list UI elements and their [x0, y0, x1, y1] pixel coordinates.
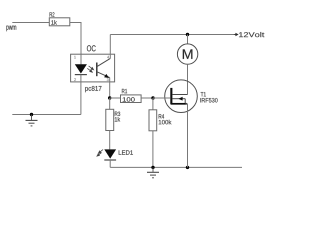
wire gate — [153, 97, 170, 99]
junction dot emitter R1 R3 — [108, 96, 111, 99]
junction dot R4 ground — [151, 166, 154, 169]
resistor R3 — [106, 98, 120, 131]
wire emitter junction to R1 — [110, 97, 121, 99]
wire 12V rail — [110, 34, 233, 36]
ground left — [26, 115, 38, 126]
junction dot gate R4 — [151, 96, 154, 99]
wire LED1 to ground rail — [109, 160, 111, 167]
wire anode inside OC — [80, 54, 82, 64]
wire motor to drain — [187, 64, 189, 94]
light arrows — [87, 66, 93, 72]
LED1 light arrows — [97, 150, 103, 157]
wire R1 to gate junction — [141, 97, 153, 99]
pin 2 — [74, 78, 76, 81]
wire R4 to ground rail — [152, 131, 154, 168]
pin 3 — [107, 78, 109, 81]
junction dot source ground — [186, 166, 189, 169]
transistor T1 circle — [165, 80, 218, 113]
resistor R1 — [121, 89, 142, 103]
wire collector to 12V rail — [109, 35, 111, 59]
wire R3 to LED1 — [109, 131, 111, 150]
LED inside optocoupler — [75, 64, 87, 74]
wire source to ground rail — [187, 104, 189, 168]
optocoupler U1 box OC — [71, 45, 115, 92]
diode LED1 — [104, 149, 133, 160]
resistor R2 — [49, 12, 70, 26]
wire emitter down — [109, 78, 111, 98]
node 12Volt supply arrow — [234, 32, 265, 37]
resistor R4 — [149, 98, 172, 131]
wire cathode down to ground rail — [80, 75, 82, 115]
wire bottom ground rail — [110, 166, 242, 168]
ground bottom — [147, 167, 159, 177]
pin 4 — [107, 56, 109, 59]
wire R2 to optocoupler anode — [70, 23, 81, 55]
wire left ground rail — [12, 114, 81, 116]
wire rail to motor — [187, 35, 189, 45]
junction dot left ground — [30, 113, 33, 116]
motor M — [177, 44, 197, 64]
junction dot 12V motor — [186, 33, 189, 36]
pin 1 — [74, 56, 76, 59]
wire pwm input — [12, 22, 49, 24]
node pwm — [6, 26, 16, 32]
phototransistor of OC — [97, 58, 111, 78]
transistor T1 internals — [170, 88, 187, 105]
